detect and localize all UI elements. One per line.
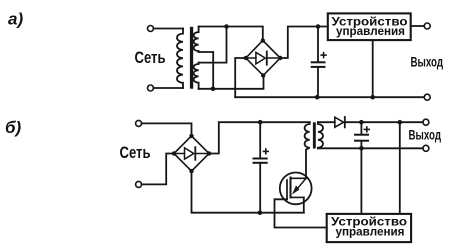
wire X2a to primary bbox=[154, 87, 184, 89]
wire X2b to bridge left bbox=[142, 154, 174, 185]
output terminal X3b bbox=[423, 119, 429, 125]
capacitor C3 plus sign bbox=[364, 127, 369, 132]
capacitor C3 lead to box bbox=[360, 142, 362, 214]
control unit box U2 bbox=[327, 214, 411, 242]
wire X1b to bridge top bbox=[142, 123, 192, 135]
bridge VD2 inner diode bbox=[174, 147, 209, 160]
transformer T1 secondary upper half bbox=[194, 27, 199, 53]
output terminal X3a bbox=[424, 23, 430, 29]
bridge rectifier VD1 diamond bbox=[246, 41, 280, 76]
bridge rectifier VD2 diamond bbox=[174, 136, 209, 171]
capacitor C3 lead top bbox=[360, 122, 362, 134]
mains terminal X1b bbox=[136, 120, 142, 126]
transformer T1 core bbox=[190, 27, 193, 89]
node U1 wire to rail bbox=[370, 95, 375, 100]
node bridge left corner bbox=[244, 56, 248, 60]
node cap branch bottom bbox=[315, 95, 320, 100]
label Выход (b) bbox=[409, 128, 442, 143]
capacitor C1 lead top bbox=[317, 27, 319, 62]
transformer T1 primary winding bbox=[177, 29, 183, 89]
node VD2 right corner bbox=[207, 151, 211, 155]
label b) bbox=[5, 118, 22, 137]
node cap branch top bbox=[316, 24, 321, 29]
transformer T1 secondary lower half bbox=[194, 63, 199, 89]
label Сеть (b) bbox=[120, 144, 151, 162]
svg-text:б): б) bbox=[5, 118, 22, 137]
svg-text:Выход: Выход bbox=[411, 54, 444, 69]
wire bridge right corner to plus rail bbox=[280, 27, 328, 59]
transistor VT1 source stub bbox=[291, 196, 304, 198]
label a) bbox=[8, 10, 23, 29]
capacitor C2 lead top bbox=[259, 122, 261, 157]
wire X1a to primary bbox=[154, 28, 184, 30]
mains terminal X2b bbox=[136, 181, 142, 187]
node VD2 top corner bbox=[189, 134, 193, 138]
output terminal X4b bbox=[423, 145, 429, 151]
svg-text:управления: управления bbox=[336, 24, 405, 38]
capacitor C1 plus sign bbox=[321, 53, 326, 58]
transistor VT1 gate bar bbox=[286, 180, 288, 199]
capacitor C2 lead bottom bbox=[259, 164, 261, 213]
svg-text:Сеть: Сеть bbox=[135, 49, 166, 67]
mains terminal X1a bbox=[148, 26, 154, 32]
wire U1 bottom to minus rail bbox=[372, 40, 374, 97]
wire VD2 bottom to source rail bbox=[192, 171, 304, 213]
top rail a bbox=[199, 27, 263, 41]
capacitor C3 plates bbox=[355, 135, 368, 141]
node C3 bottom rail junction bbox=[359, 146, 364, 151]
svg-text:а): а) bbox=[8, 10, 23, 29]
node top rail junction bbox=[224, 24, 229, 29]
capacitor C1 plates bbox=[312, 62, 325, 67]
wire U1 to output terminal bbox=[411, 25, 425, 27]
mains terminal X2a bbox=[148, 85, 154, 91]
node C2 top junction bbox=[258, 120, 263, 125]
node C2 bottom junction bbox=[258, 210, 263, 215]
transformer T2 secondary winding bbox=[318, 122, 323, 148]
diode VD3 bbox=[335, 117, 345, 127]
node bridge right corner bbox=[278, 56, 282, 60]
capacitor C2 plates bbox=[254, 159, 267, 163]
label Выход (a) bbox=[411, 54, 444, 69]
wire bridge left corner to minus rail bbox=[235, 58, 246, 97]
transistor VT1 channel bar bbox=[290, 178, 292, 198]
control unit U1 text bbox=[332, 15, 408, 39]
node feedback junction bbox=[398, 120, 403, 125]
feedback wire to box bbox=[399, 122, 401, 214]
node C3 top junction bbox=[359, 120, 364, 125]
svg-text:Сеть: Сеть bbox=[120, 144, 151, 162]
transistor VT1 circle bbox=[280, 173, 312, 205]
wire upper-half end to lower junction bbox=[199, 52, 214, 89]
transistor VT1 gate lead bbox=[275, 199, 327, 227]
control unit U2 text bbox=[331, 215, 407, 239]
node VD2 bottom corner bbox=[189, 169, 193, 173]
capacitor C2 plus sign bbox=[263, 149, 268, 154]
transistor VT1 body arrow bbox=[292, 178, 306, 194]
output terminal X4a bbox=[424, 94, 430, 100]
transistor VT1 source lead bbox=[303, 197, 305, 212]
wire VD2 right to hv rail bbox=[209, 122, 310, 153]
wire secondary tap to top rail bbox=[199, 27, 227, 63]
output plus rail b bbox=[345, 121, 423, 123]
secondary return rail b bbox=[318, 147, 423, 149]
wire secondary bottom to bridge bbox=[199, 75, 264, 88]
svg-text:Выход: Выход bbox=[409, 128, 442, 143]
transistor VT1 drain stub bbox=[291, 177, 306, 179]
label Сеть (a) bbox=[135, 49, 166, 67]
transformer T2 core bbox=[313, 122, 316, 148]
node secondary bottom junction bbox=[211, 87, 216, 92]
svg-text:управления: управления bbox=[336, 224, 405, 238]
node VD2 left corner bbox=[172, 151, 176, 155]
bridge VD1 inner diode bbox=[246, 52, 280, 65]
minus rail a bbox=[235, 96, 424, 98]
node bridge top corner bbox=[261, 38, 265, 42]
control unit box U1 bbox=[328, 13, 411, 40]
node bridge bottom corner bbox=[261, 73, 265, 77]
capacitor C1 lead bottom bbox=[317, 68, 319, 97]
diode VD3 anode wire bbox=[318, 121, 335, 123]
transformer T2 primary winding bbox=[305, 122, 310, 178]
